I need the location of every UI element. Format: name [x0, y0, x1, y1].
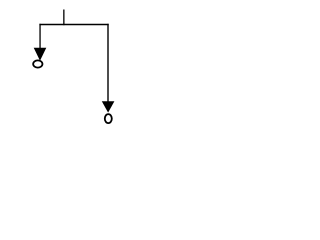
wire: left vertical drop: [39, 24, 41, 49]
arrowhead: right arrow: [102, 101, 115, 112]
wire: right vertical drop: [107, 24, 109, 103]
wire: horizontal bus: [39, 24, 108, 26]
node: right ellipse terminal: [105, 114, 112, 123]
arrowhead: left arrow: [34, 48, 47, 61]
wire: top stub: [63, 10, 65, 26]
node: left ellipse terminal: [33, 60, 42, 67]
